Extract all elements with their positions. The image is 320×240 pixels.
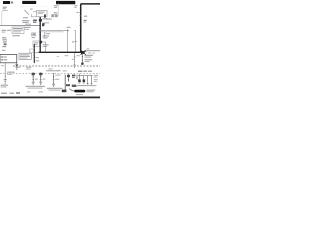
cluster connector box — [12, 27, 24, 33]
label fuse small — [2, 9, 8, 12]
label 48 right of thick wire — [84, 20, 87, 21]
dark label left of curve — [62, 90, 67, 93]
firewall dashed line upper — [13, 65, 100, 67]
small dark box upper-left of junction — [32, 33, 36, 36]
label under cluster box — [12, 35, 20, 36]
ground wire G101 — [32, 72, 34, 82]
connector dark labels — [33, 20, 37, 21]
ground wire center — [53, 73, 55, 84]
starter assembly long wire — [64, 75, 66, 91]
solenoid drop 2 — [83, 76, 85, 80]
ground symbol left drop — [73, 65, 76, 66]
junction tick at end of wire A — [67, 29, 69, 31]
stub wire with arrow — [44, 32, 46, 36]
label S near top of thick wire — [74, 5, 77, 6]
wire labels right of thick wire — [43, 18, 48, 19]
vertical wire right-middle with tick — [75, 31, 77, 53]
main thick ground bus horizontal — [39, 51, 84, 53]
solenoid drop 1 — [78, 74, 80, 80]
text right of starter — [76, 75, 78, 80]
firewall dashed line lower — [0, 73, 100, 75]
label right of blade — [30, 9, 33, 10]
connector blob on thick wire — [39, 19, 42, 22]
connector square C2 — [55, 15, 57, 17]
small connector box left of junction — [33, 41, 39, 47]
ground wire far left bottom — [4, 63, 6, 80]
module box text row2 — [1, 59, 3, 61]
caption text left bottom — [1, 85, 9, 86]
second box right of module — [19, 53, 31, 59]
labels right of far left ground wire — [7, 72, 14, 73]
bottom border bar — [0, 97, 100, 99]
vertical wire from junction down to bus — [67, 30, 69, 52]
labels right of drop wire — [85, 55, 93, 56]
text column right — [94, 75, 98, 76]
labels above lower dashed line — [56, 70, 60, 71]
starter lower marks — [66, 84, 70, 86]
module box text row1 — [1, 56, 3, 58]
thick ignition feed wire vertical — [39, 17, 41, 52]
dashed box around ignition switch — [21, 7, 49, 17]
wire from fuse down-left — [1, 11, 3, 25]
label above junction — [67, 27, 71, 28]
label right of battery bar — [87, 90, 96, 91]
wire label GY dark blob — [44, 14, 46, 17]
caption under G101/G102 — [25, 86, 45, 87]
text rows left of thick line — [23, 17, 28, 18]
faint wire below right header — [57, 3, 59, 15]
drop wire below junction — [81, 54, 83, 63]
connector square C1 — [52, 15, 54, 17]
labels left of right header box — [54, 5, 58, 6]
caption under center ground — [47, 88, 63, 89]
center horizontal pair wire A — [40, 29, 68, 31]
solenoid drop 4 — [91, 76, 93, 84]
label below bus center — [65, 55, 69, 56]
text row under connector squares — [46, 19, 52, 20]
starter curved cable — [69, 89, 77, 92]
stacked connector marks — [72, 75, 75, 77]
chevron ticks on thick wire — [39, 27, 40, 29]
thin continuation right of junction — [84, 51, 100, 52]
header box HOT AT ALL TIMES right — [56, 1, 75, 4]
left drop from bus with ground — [74, 53, 76, 65]
module ground drop with X crossing — [16, 63, 18, 67]
thick cluster ground wire — [33, 44, 35, 63]
label under left header — [3, 7, 7, 8]
top right thick feed wire — [81, 4, 100, 52]
solenoid drop 3 — [87, 76, 89, 84]
solenoid top rail — [78, 75, 93, 77]
ignition switch text — [38, 12, 45, 13]
header box HOT AT ALL TIMES left — [3, 1, 10, 4]
tick on thick wire — [78, 12, 80, 14]
label above left wire — [25, 24, 31, 25]
label above center ground — [46, 70, 56, 71]
header box HOT IN START left-center — [22, 1, 36, 4]
center horizontal pair wire B — [40, 31, 64, 33]
ignition switch blade — [25, 10, 30, 15]
labels below left wire — [24, 27, 31, 28]
footer small text left — [1, 93, 7, 94]
splice junction on thick wire — [39, 41, 42, 44]
small label right of thick wire top — [84, 16, 87, 17]
left horizontal wire to cluster — [0, 25, 40, 27]
left label column — [2, 30, 6, 31]
ground dots under drops 1-2 — [79, 82, 81, 84]
labels below dashed line — [17, 67, 20, 68]
dark mark at left end of wire A — [42, 24, 44, 26]
black battery bar — [74, 90, 85, 93]
tick2 on thick wire — [79, 25, 82, 27]
ground symbol far left — [4, 80, 7, 83]
starter connector wire — [68, 74, 70, 82]
ground symbol module — [16, 67, 18, 68]
labels right of thick ground wire — [35, 52, 38, 53]
ground wire G102 — [40, 72, 42, 82]
X junction blob — [81, 51, 85, 54]
ignition switch box — [37, 10, 47, 16]
small connector box left of thick ground wire — [30, 49, 34, 53]
caption row right bottom — [77, 85, 86, 86]
wire from blade to ignition box — [32, 14, 37, 17]
elbow wire from junction to right — [41, 42, 46, 52]
big left module box — [0, 55, 17, 63]
footer small text right — [76, 94, 83, 95]
